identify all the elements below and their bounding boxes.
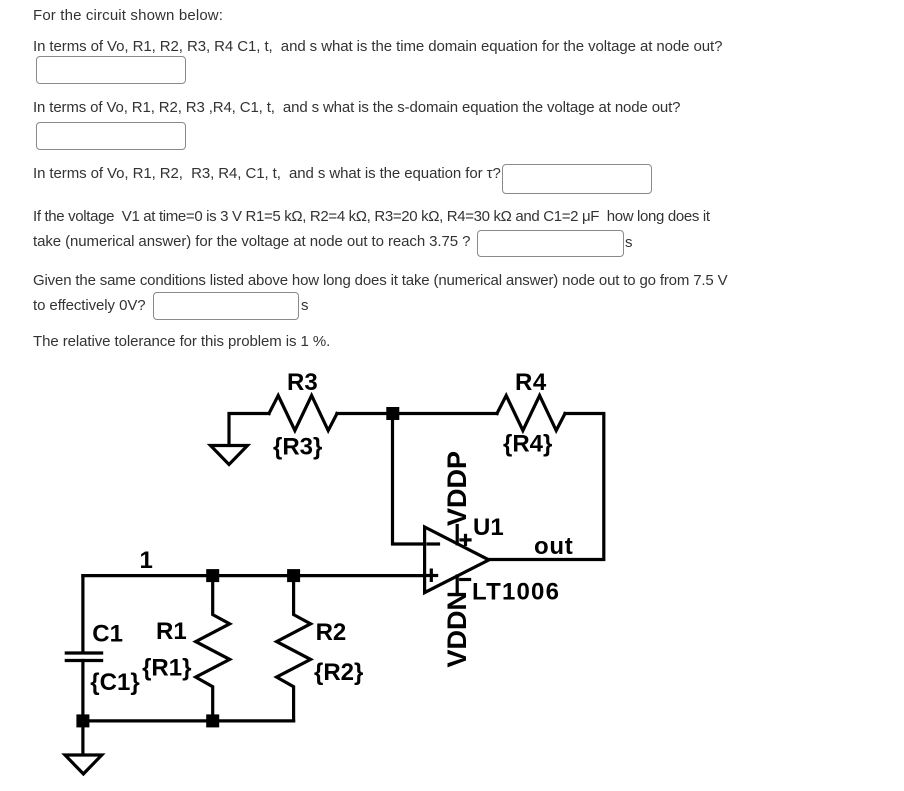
wire C1 bottom lead — [81, 661, 84, 721]
svg-text:VDDN: VDDN — [442, 591, 472, 668]
resistor R2 — [277, 576, 311, 721]
label U1 — [473, 514, 504, 541]
svg-text:R1: R1 — [156, 618, 187, 645]
label R4 — [515, 369, 547, 396]
junction node 1 at R2 — [287, 569, 300, 582]
op-amp positive supply pin — [456, 526, 459, 544]
svg-text:U1: U1 — [473, 514, 504, 541]
svg-text:out: out — [534, 533, 573, 560]
svg-text:R3: R3 — [287, 369, 318, 396]
wire node to inverting input — [393, 414, 425, 545]
op-amp negative supply pin — [456, 576, 459, 595]
node label out — [534, 533, 573, 560]
wire R3 left lead to ground — [229, 414, 269, 446]
wire bottom bus — [83, 719, 294, 722]
junction bottom at R1 — [206, 714, 219, 727]
op-amp non-inverting input marker — [426, 570, 437, 580]
junction node 1 at R1 — [206, 569, 219, 582]
junction node R3/R4 — [386, 407, 399, 420]
label R2 — [316, 619, 347, 646]
op-amp U1 body — [425, 527, 489, 593]
resistor R1 — [196, 576, 230, 721]
node label 1 — [140, 547, 153, 574]
label C1 — [92, 621, 123, 648]
junction bottom at C1 — [76, 714, 89, 727]
ground bottom left — [65, 755, 102, 774]
svg-text:{C1}: {C1} — [90, 669, 139, 696]
svg-text:LT1006: LT1006 — [472, 579, 560, 606]
op-amp negative supply marker — [461, 578, 470, 581]
label R3 value — [273, 434, 322, 461]
svg-text:VDDP: VDDP — [442, 451, 472, 526]
ground under R3 — [211, 446, 248, 465]
svg-text:1: 1 — [140, 547, 153, 574]
label R1 — [156, 618, 187, 645]
label R1 value — [142, 655, 191, 682]
wire node 1 to non-inverting input — [83, 574, 425, 577]
svg-text:R2: R2 — [316, 619, 347, 646]
svg-text:{R4}: {R4} — [503, 431, 552, 458]
wire R4 right lead down to output — [489, 414, 604, 560]
label R2 value — [314, 659, 363, 686]
wire R3 to R4 through node — [337, 412, 497, 415]
svg-text:C1: C1 — [92, 621, 123, 648]
op-amp positive supply marker — [461, 535, 470, 544]
label R3 — [287, 369, 318, 396]
svg-text:R4: R4 — [515, 369, 547, 396]
svg-text:{R2}: {R2} — [314, 659, 363, 686]
label C1 value — [90, 669, 139, 696]
label U1 part LT1006 — [472, 579, 560, 606]
svg-text:{R3}: {R3} — [273, 434, 322, 461]
question text — [33, 8, 223, 23]
resistor R3 — [269, 396, 337, 431]
capacitor C1 — [66, 653, 101, 661]
wire to ground bottom — [81, 721, 84, 754]
label R4 value — [503, 431, 552, 458]
net label VDDP — [442, 451, 472, 526]
svg-text:{R1}: {R1} — [142, 655, 191, 682]
wire C1 top lead — [81, 576, 84, 652]
op-amp inverting input marker — [428, 542, 439, 545]
net label VDDN — [442, 591, 472, 668]
resistor R4 — [497, 396, 565, 431]
